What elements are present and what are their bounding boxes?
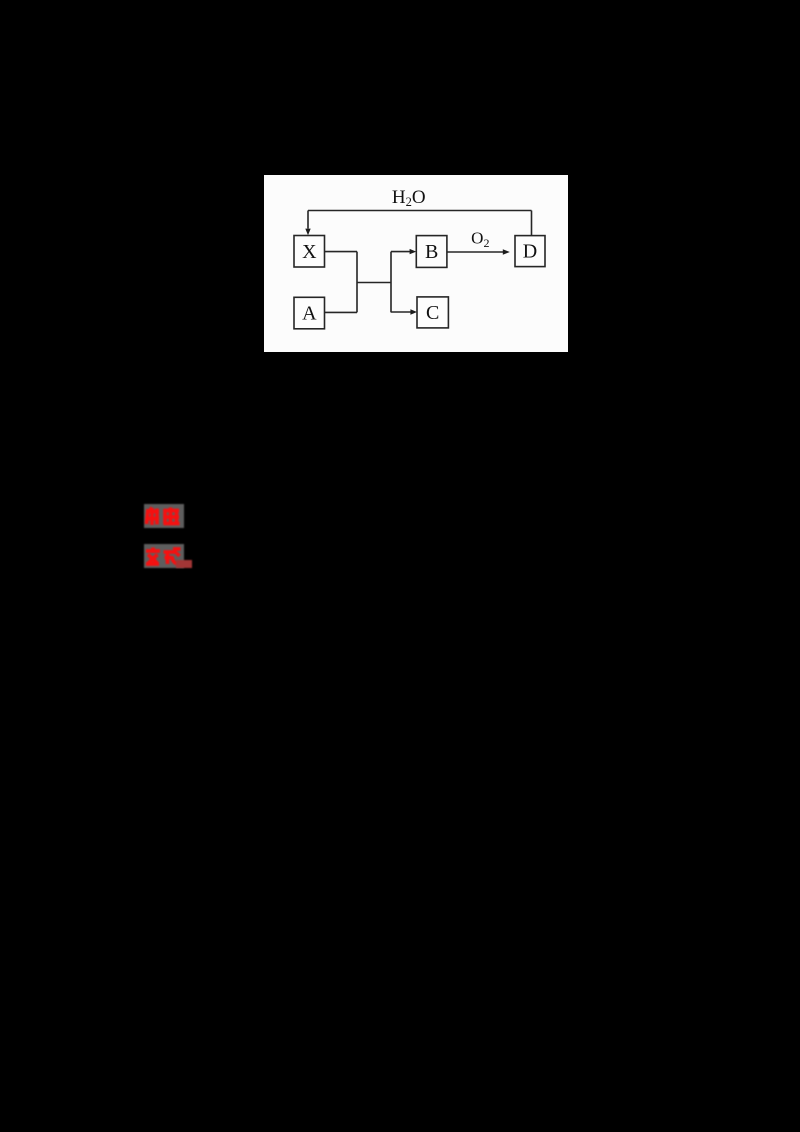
arrowhead into C bbox=[410, 309, 417, 314]
svg-text:A: A bbox=[302, 303, 317, 325]
box D bbox=[515, 236, 545, 267]
box B bbox=[416, 236, 447, 268]
box C bbox=[417, 297, 448, 328]
wire junction vertical left bbox=[356, 252, 358, 313]
wire A to junction bbox=[325, 311, 358, 313]
wire feedback right vertical from D bbox=[531, 211, 533, 236]
svg-text:B: B bbox=[425, 241, 438, 263]
wire arrow shaft to B bbox=[391, 251, 410, 253]
box X bbox=[294, 236, 325, 268]
box A bbox=[294, 297, 325, 329]
red tag 2 dark red block bbox=[176, 560, 192, 568]
arrowhead down into X bbox=[305, 229, 310, 236]
svg-text:D: D bbox=[523, 241, 537, 263]
wire junction middle horizontal bbox=[357, 282, 391, 284]
arrowhead into B bbox=[410, 249, 417, 254]
wire H2O feedback top horizontal bbox=[308, 210, 532, 212]
wire junction vertical right bbox=[390, 252, 392, 313]
wire feedback left vertical into X bbox=[307, 211, 309, 229]
arrowhead B to D bbox=[503, 249, 510, 255]
red tag 2 bbox=[144, 544, 192, 568]
svg-text:C: C bbox=[426, 302, 439, 324]
svg-text:X: X bbox=[302, 241, 317, 263]
wire arrow shaft B to D bbox=[447, 251, 504, 253]
wire arrow shaft to C bbox=[391, 311, 412, 313]
red tag 1 bbox=[144, 504, 184, 528]
white diagram panel bbox=[264, 175, 568, 352]
wire X to junction bbox=[325, 251, 358, 253]
svg-text:H2O: H2O bbox=[392, 187, 426, 209]
svg-text:O2: O2 bbox=[471, 228, 489, 249]
